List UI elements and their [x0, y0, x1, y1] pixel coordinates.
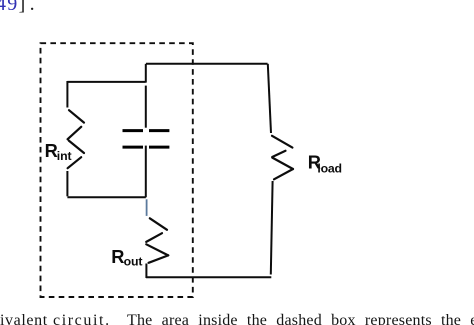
svg-text:R: R — [111, 246, 124, 267]
svg-text:load: load — [317, 161, 341, 175]
svg-text:int: int — [57, 149, 72, 163]
svg-text:out: out — [124, 255, 143, 269]
